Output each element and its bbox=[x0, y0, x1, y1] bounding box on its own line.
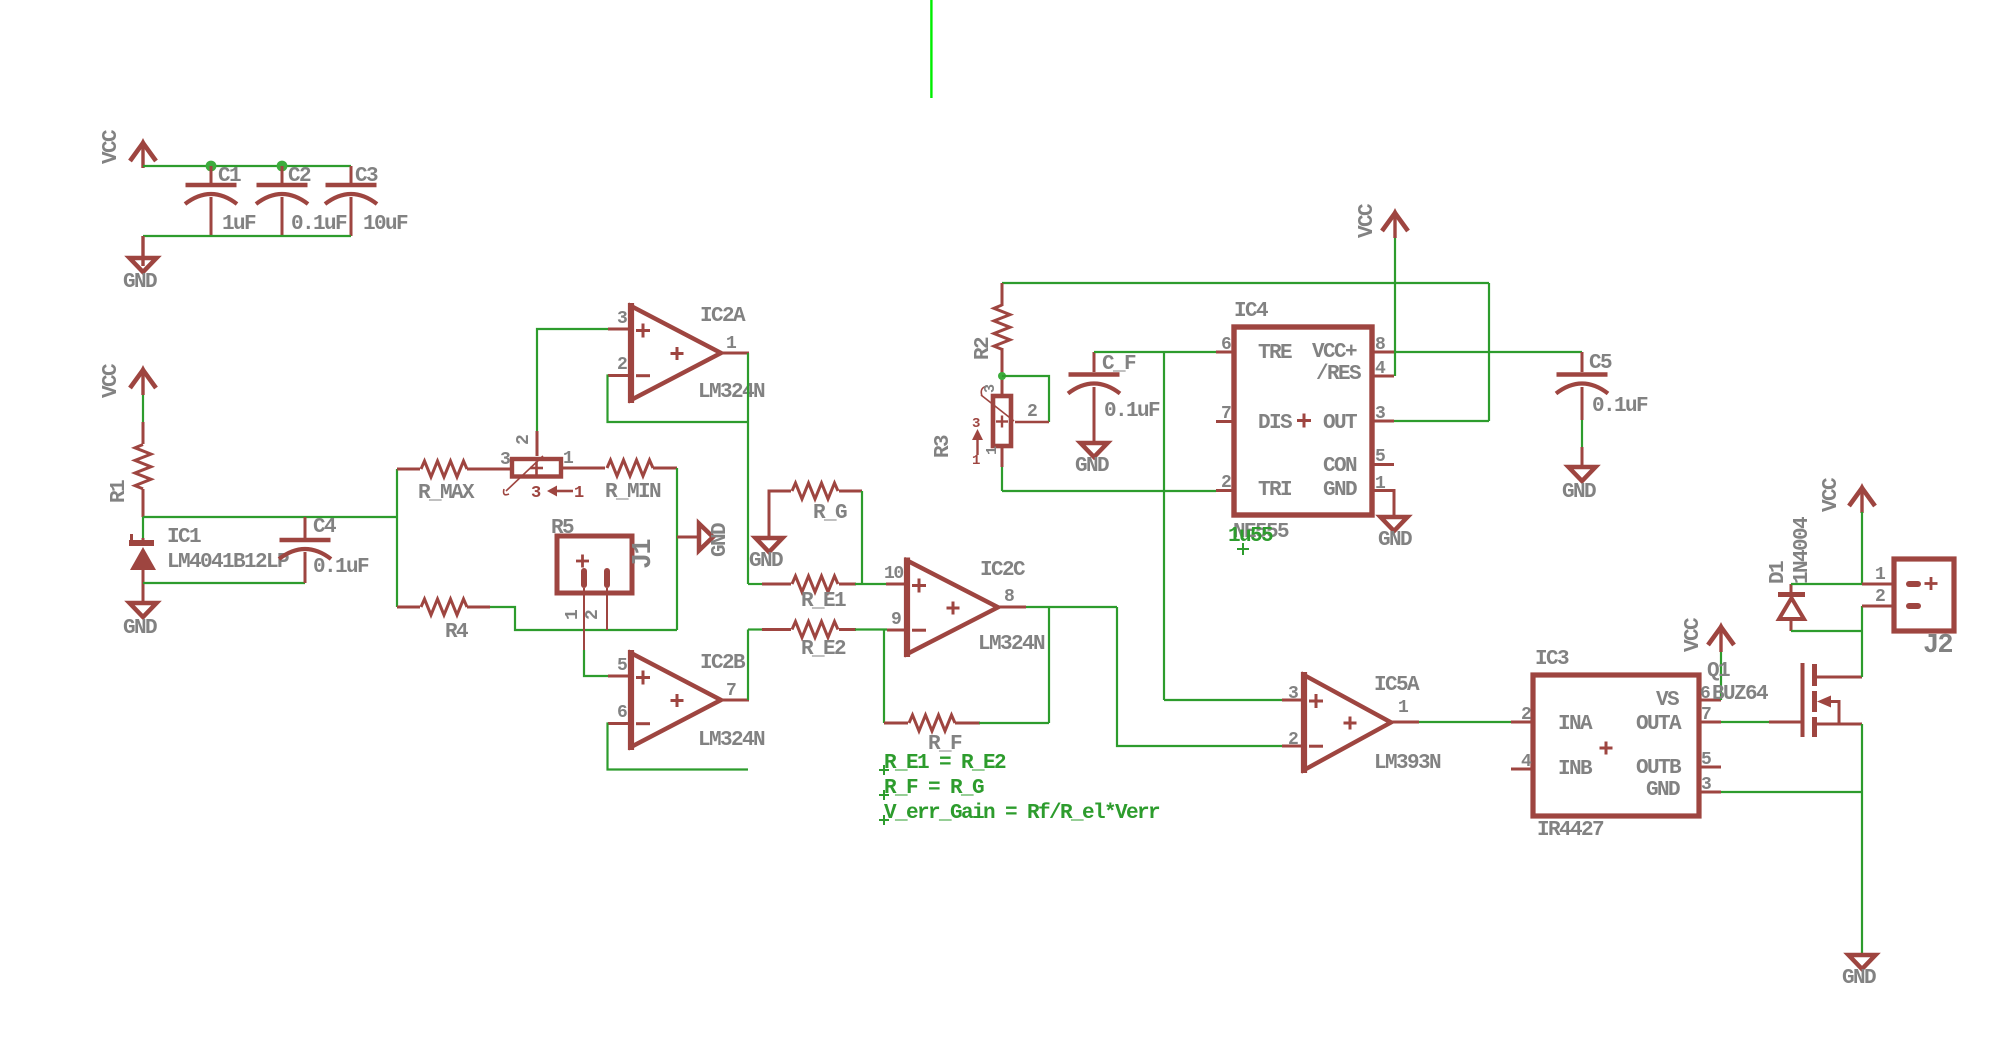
svg-text:GND: GND bbox=[123, 617, 157, 640]
resistor R_E1 bbox=[748, 576, 886, 613]
resistor R2 bbox=[972, 283, 1010, 396]
svg-text:VCC: VCC bbox=[100, 363, 123, 398]
svg-text:C1: C1 bbox=[218, 165, 241, 188]
svg-text:R_E1 = R_E2: R_E1 = R_E2 bbox=[884, 752, 1006, 775]
svg-text:GND: GND bbox=[1562, 481, 1596, 504]
power flag VCC (J2) bbox=[1820, 477, 1875, 513]
svg-text:6: 6 bbox=[1221, 335, 1231, 355]
svg-text:0.1uF: 0.1uF bbox=[1104, 400, 1160, 423]
wire OUTA to gate bbox=[1721, 721, 1769, 723]
resistor R_F bbox=[884, 715, 1049, 756]
svg-text:J1: J1 bbox=[629, 539, 659, 569]
svg-text:R3: R3 bbox=[932, 435, 955, 458]
svg-text:6: 6 bbox=[1700, 684, 1710, 704]
svg-text:GND: GND bbox=[1323, 479, 1357, 502]
svg-text:VS: VS bbox=[1656, 689, 1679, 712]
wire R_E2 node down to R_F bbox=[883, 630, 885, 724]
op-amp IC5A (LM393N) bbox=[1282, 672, 1441, 775]
wire ref node horizontal bbox=[143, 516, 397, 518]
svg-text:R_MAX: R_MAX bbox=[418, 482, 475, 505]
svg-text:LM4041B12LP: LM4041B12LP bbox=[167, 551, 289, 574]
svg-text:V_err_Gain = Rf/R_el*Verr: V_err_Gain = Rf/R_el*Verr bbox=[884, 802, 1160, 825]
svg-text:R_MIN: R_MIN bbox=[605, 481, 661, 504]
svg-text:GND: GND bbox=[1842, 967, 1876, 990]
resistor R_G bbox=[769, 483, 862, 536]
IC4 pin 6 TRE stub bbox=[1216, 335, 1234, 355]
svg-text:1N4004: 1N4004 bbox=[1791, 517, 1814, 584]
connector J2 bbox=[1862, 559, 1954, 661]
wire to IC5A pin3 horizontal bbox=[1164, 699, 1282, 701]
svg-text:7: 7 bbox=[726, 681, 736, 701]
svg-text:1u55: 1u55 bbox=[1228, 525, 1273, 548]
svg-text:1: 1 bbox=[1398, 698, 1409, 718]
svg-text:D1: D1 bbox=[1767, 561, 1790, 584]
wire IC2A output down bbox=[747, 353, 749, 584]
svg-text:R_E1: R_E1 bbox=[801, 590, 846, 613]
capacitor C4 bbox=[279, 516, 369, 583]
wire VCC to R1 bbox=[142, 395, 144, 424]
trimmer direction marker 3<-1 bbox=[531, 484, 584, 503]
power flag VCC (top-left) bbox=[100, 129, 156, 168]
wire IC5A output to IC3 bbox=[1419, 721, 1511, 723]
svg-text:TRE: TRE bbox=[1258, 342, 1292, 365]
ground GND (output) bbox=[1842, 955, 1876, 990]
svg-text:VCC: VCC bbox=[100, 129, 123, 164]
svg-text:LM393N: LM393N bbox=[1374, 752, 1441, 775]
svg-text:DIS: DIS bbox=[1258, 412, 1292, 435]
annotation R_E1 = R_E2 bbox=[879, 752, 1006, 775]
svg-text:VCC: VCC bbox=[1682, 617, 1705, 652]
wire vertical branch node bbox=[396, 469, 398, 607]
wire J1 pin1 to IC2B pin5 bbox=[584, 650, 608, 676]
wire ref node to IC1 bbox=[142, 517, 144, 538]
svg-text:7: 7 bbox=[1701, 705, 1711, 725]
J1 pin 1 lead bbox=[563, 588, 584, 650]
diode D1 1N4004 bbox=[1767, 517, 1814, 631]
capacitor C5 bbox=[1556, 352, 1648, 465]
svg-text:10: 10 bbox=[884, 564, 903, 584]
svg-text:OUT: OUT bbox=[1323, 412, 1357, 435]
svg-text:1uF: 1uF bbox=[222, 213, 256, 236]
op-amp IC2B (LM324N) bbox=[608, 650, 765, 752]
wire IC2B output up bbox=[747, 630, 749, 701]
svg-text:Q1: Q1 bbox=[1707, 660, 1730, 683]
ground GND (R_G) bbox=[749, 538, 783, 573]
wire R4 to J1 row bbox=[490, 607, 677, 630]
IC4 pin 8 stub bbox=[1372, 335, 1394, 355]
wire IC2C output to IC5A pin2 bbox=[1117, 607, 1282, 746]
wire VCC rail top bbox=[143, 165, 351, 167]
ground GND (IC1) bbox=[123, 603, 157, 640]
svg-text:2: 2 bbox=[1875, 587, 1885, 607]
svg-text:GND: GND bbox=[749, 550, 783, 573]
svg-text:3: 3 bbox=[982, 384, 999, 393]
junction dot at C1 bbox=[206, 161, 217, 172]
ground GND (C5) bbox=[1562, 467, 1596, 504]
capacitor C_F bbox=[1068, 352, 1160, 441]
resistor R1 bbox=[108, 422, 151, 517]
svg-text:IC4: IC4 bbox=[1234, 300, 1268, 323]
wire R2 top rail bbox=[1002, 282, 1489, 284]
wire IC1 anode to C4 bottom bbox=[143, 582, 305, 584]
IC4 pin 5 CON stub bbox=[1372, 447, 1394, 467]
capacitor C2 bbox=[256, 165, 347, 236]
svg-text:3: 3 bbox=[972, 416, 980, 432]
svg-text:R2: R2 bbox=[972, 337, 995, 360]
wire D1 anode link bbox=[1791, 630, 1862, 632]
resistor R_MAX bbox=[397, 461, 512, 505]
svg-text:1: 1 bbox=[1875, 565, 1886, 585]
IC4 pin 2 TRI stub bbox=[1216, 473, 1234, 493]
svg-text:8: 8 bbox=[1375, 335, 1385, 355]
svg-text:1: 1 bbox=[1375, 474, 1386, 494]
svg-text:4: 4 bbox=[1375, 359, 1386, 379]
svg-text:1: 1 bbox=[563, 449, 574, 469]
wire D1 cathode to J2 pin1 bbox=[1791, 583, 1862, 585]
IC3 pin 7 OUTA stub bbox=[1699, 705, 1721, 725]
svg-text:C4: C4 bbox=[313, 516, 336, 539]
wire IC2A feedback bbox=[608, 376, 749, 423]
resistor R4 bbox=[397, 599, 490, 644]
IC3 pin 5 OUTB stub bbox=[1699, 750, 1721, 770]
wire VCC to J2 pin1 bbox=[1861, 512, 1863, 584]
svg-text:0.1uF: 0.1uF bbox=[1592, 395, 1648, 418]
svg-text:2: 2 bbox=[1027, 402, 1037, 422]
svg-text:VCC: VCC bbox=[1820, 477, 1843, 512]
transistor Q1 BUZ64 bbox=[1707, 660, 1862, 737]
svg-text:1: 1 bbox=[972, 453, 980, 469]
power flag VCC (IC4) bbox=[1356, 203, 1408, 238]
svg-text:IC2B: IC2B bbox=[700, 652, 746, 675]
cursor crosshair line bbox=[930, 0, 932, 98]
svg-text:IR4427: IR4427 bbox=[1537, 819, 1604, 842]
svg-text:3: 3 bbox=[531, 484, 541, 503]
power flag VCC (Q1 gate driver) bbox=[1682, 617, 1734, 652]
capacitor C3 bbox=[325, 165, 408, 236]
svg-text:IC3: IC3 bbox=[1535, 648, 1569, 671]
wire R_F up to IC2C output bbox=[1048, 607, 1050, 723]
svg-text:8: 8 bbox=[1004, 587, 1014, 607]
wire J2 pin2 down bbox=[1861, 606, 1863, 631]
svg-text:LM324N: LM324N bbox=[698, 381, 765, 404]
svg-text:2: 2 bbox=[1288, 730, 1298, 750]
svg-text:3: 3 bbox=[1375, 404, 1385, 424]
annotation R_F = R_G bbox=[879, 777, 984, 800]
svg-text:IC5A: IC5A bbox=[1374, 674, 1420, 697]
svg-text:3: 3 bbox=[617, 309, 627, 329]
svg-text:6: 6 bbox=[617, 703, 627, 723]
wire R_MIN down bbox=[676, 468, 678, 630]
svg-text:J2: J2 bbox=[1923, 631, 1952, 661]
resistor R_MIN bbox=[561, 460, 677, 504]
svg-text:GND: GND bbox=[123, 271, 157, 294]
power flag VCC (R1 branch) bbox=[100, 363, 156, 398]
svg-text:VCC+: VCC+ bbox=[1312, 341, 1357, 364]
svg-text:5: 5 bbox=[1375, 447, 1385, 467]
svg-text:GND: GND bbox=[1646, 779, 1680, 802]
svg-text:IC2A: IC2A bbox=[700, 305, 746, 328]
svg-text:IC2C: IC2C bbox=[980, 559, 1026, 582]
svg-text:GND: GND bbox=[1378, 529, 1412, 552]
wire IC3 GND to rail bbox=[1721, 791, 1862, 793]
wire R3 wiper loop bbox=[1002, 376, 1049, 422]
svg-text:/RES: /RES bbox=[1316, 363, 1361, 386]
svg-text:0.1uF: 0.1uF bbox=[291, 213, 347, 236]
svg-text:R_F = R_G: R_F = R_G bbox=[884, 777, 984, 800]
IC4 pin 7 DIS stub bbox=[1216, 404, 1234, 424]
svg-text:1: 1 bbox=[726, 334, 737, 354]
svg-text:0.1uF: 0.1uF bbox=[313, 556, 369, 579]
svg-text:10uF: 10uF bbox=[363, 213, 408, 236]
wire TRE node down to IC5A pin3 bbox=[1163, 352, 1165, 700]
wire R3 bottom to TRI bbox=[1002, 446, 1216, 491]
svg-text:R1: R1 bbox=[108, 480, 131, 503]
svg-text:2: 2 bbox=[583, 610, 603, 620]
IC3 pin 3 GND stub bbox=[1699, 775, 1721, 795]
ground GND (divider, sideways) bbox=[677, 523, 732, 557]
wire trimmer wiper to IC2A pin3 bbox=[537, 329, 608, 431]
wire IC2B feedback bbox=[608, 724, 749, 770]
svg-text:2: 2 bbox=[617, 355, 627, 375]
svg-text:1: 1 bbox=[984, 446, 1001, 455]
op-amp IC2A (LM324N) bbox=[608, 303, 765, 404]
svg-text:R_G: R_G bbox=[813, 502, 847, 525]
svg-text:3: 3 bbox=[1288, 684, 1298, 704]
svg-text:4: 4 bbox=[1521, 752, 1532, 772]
svg-text:5: 5 bbox=[1701, 750, 1711, 770]
svg-text:2: 2 bbox=[1221, 473, 1231, 493]
svg-text:5: 5 bbox=[617, 656, 627, 676]
svg-text:R4: R4 bbox=[445, 621, 468, 644]
driver IC3 (IR4427) bbox=[1533, 648, 1699, 842]
svg-text:TRI: TRI bbox=[1258, 479, 1291, 502]
value NE555 bbox=[1228, 521, 1289, 555]
wire IC2C output right bbox=[1026, 606, 1117, 608]
R3 direction marker 1->3 bbox=[972, 416, 983, 469]
svg-text:VCC: VCC bbox=[1356, 203, 1379, 238]
resistor R_E2 bbox=[748, 622, 887, 662]
svg-text:INB: INB bbox=[1558, 758, 1593, 781]
trimmer R5 (horizontal) bbox=[500, 431, 574, 495]
IC3 pin 4 INB stub bbox=[1511, 752, 1533, 772]
timer IC4 (NE555) bbox=[1234, 300, 1372, 515]
shunt reference IC1 LM4041B12LP bbox=[129, 526, 289, 601]
svg-text:C3: C3 bbox=[355, 165, 378, 188]
wire R_G right down bbox=[861, 491, 863, 584]
wire OUT to top rail bbox=[1394, 283, 1489, 421]
svg-text:CON: CON bbox=[1323, 455, 1357, 478]
svg-text:INA: INA bbox=[1558, 713, 1593, 736]
svg-text:2: 2 bbox=[514, 435, 534, 445]
svg-text:BUZ64: BUZ64 bbox=[1712, 683, 1768, 706]
svg-text:OUTB: OUTB bbox=[1636, 757, 1682, 780]
capacitor C1 bbox=[185, 165, 256, 236]
ground GND (IC4) bbox=[1378, 517, 1412, 552]
potentiometer R3 (rheostat) bbox=[932, 384, 1049, 458]
IC3 pin 2 INA stub bbox=[1511, 705, 1533, 725]
wire VCC to IC4 pin4 bbox=[1394, 238, 1396, 376]
svg-text:GND: GND bbox=[709, 523, 732, 557]
junction dot at C2 bbox=[277, 161, 288, 172]
svg-text:C_F: C_F bbox=[1102, 353, 1136, 376]
wire pin8 to C5 bbox=[1394, 351, 1582, 353]
annotation V_err_Gain bbox=[879, 802, 1160, 825]
junction dot R2/R3 bbox=[998, 372, 1006, 380]
svg-text:2: 2 bbox=[1521, 705, 1531, 725]
svg-text:R_E2: R_E2 bbox=[801, 638, 846, 661]
wire VCC to VS bbox=[1720, 652, 1722, 700]
IC4 pin 4 stub bbox=[1372, 359, 1394, 379]
svg-text:LM324N: LM324N bbox=[698, 729, 765, 752]
svg-text:R5: R5 bbox=[551, 517, 574, 540]
op-amp IC2C (LM324N) bbox=[884, 558, 1045, 658]
connector J1 (box R5 label) bbox=[551, 517, 659, 593]
IC4 pin 3 OUT stub bbox=[1372, 404, 1394, 424]
svg-text:IC1: IC1 bbox=[167, 526, 201, 549]
svg-text:OUTA: OUTA bbox=[1636, 713, 1682, 736]
wire to Q1 drain bbox=[1861, 631, 1863, 677]
wire Q1 source to GND rail bbox=[1861, 724, 1863, 953]
svg-text:9: 9 bbox=[891, 610, 901, 630]
svg-text:3: 3 bbox=[500, 450, 510, 470]
svg-text:C5: C5 bbox=[1589, 352, 1612, 375]
ground GND (C_F) bbox=[1075, 443, 1109, 478]
svg-text:1: 1 bbox=[563, 609, 583, 620]
svg-text:LM324N: LM324N bbox=[978, 633, 1045, 656]
IC3 pin 6 VS stub bbox=[1699, 684, 1721, 704]
svg-text:C2: C2 bbox=[288, 165, 311, 188]
IC4 pin 1 GND stub bbox=[1372, 474, 1394, 515]
ground GND (top-left) bbox=[123, 236, 157, 294]
svg-text:3: 3 bbox=[1701, 775, 1711, 795]
wire GND rail bottom bbox=[143, 235, 351, 237]
svg-text:GND: GND bbox=[1075, 455, 1109, 478]
svg-text:1: 1 bbox=[574, 484, 584, 503]
J1 pin 2 lead bbox=[583, 588, 607, 630]
svg-text:7: 7 bbox=[1221, 404, 1231, 424]
wire C_F to TRE bbox=[1094, 351, 1216, 353]
